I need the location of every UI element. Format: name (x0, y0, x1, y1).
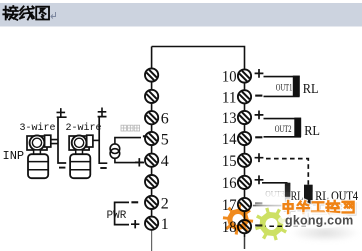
label 电流源 (121, 125, 126, 131)
resistor RL (OUT3) (285, 183, 290, 206)
wire OUT3 - (253, 205, 288, 207)
wire middle column bus (151, 47, 153, 230)
terminal (middle) 5 (145, 132, 158, 145)
transmitter 2-wire (69, 135, 93, 178)
resistor RL (OUT1) (293, 76, 300, 97)
terminal 18 (238, 220, 251, 233)
transmitter 3-wire (27, 135, 51, 178)
glow under gkong.com (278, 212, 354, 229)
terminal (middle) 6 (145, 111, 158, 124)
terminal 10 (238, 69, 251, 82)
wire OUT3 + (262, 182, 288, 184)
terminal 15 (238, 154, 251, 167)
terminal 17 (238, 198, 251, 211)
wire OUT4 - (dashed) (266, 205, 309, 227)
resistor RL (OUT4) (304, 185, 313, 205)
watermark text 中华工控网 (285, 203, 294, 215)
rail 2-wire (+ top, - bottom) (98, 108, 107, 117)
wire current source to terminal 4 (115, 158, 144, 162)
paragraph return mark (51, 12, 56, 19)
wire top bus (152, 47, 245, 71)
resistor RL (OUT4) redraw (304, 185, 313, 205)
wire OUT1 + (264, 76, 300, 78)
watermark gear green (255, 208, 288, 241)
wire right column bus (244, 70, 246, 237)
terminal (middle) 1 (145, 217, 158, 230)
resistor RL (OUT2) (294, 118, 301, 137)
terminal (middle) 3 (145, 175, 158, 188)
wire PWR bracket (115, 202, 129, 224)
watermark gear orange (223, 204, 253, 234)
wire OUT2 + (264, 118, 302, 120)
current source symbol (110, 144, 120, 154)
rail 3-wire (+ top, - bottom) (57, 108, 66, 117)
resistor RL (OUT3) redraw (285, 183, 290, 197)
title 接线图 (3, 6, 18, 20)
wire current source to terminal 5 (115, 138, 141, 144)
wire OUT2 - (264, 136, 302, 138)
terminal (middle) 7 (145, 90, 158, 103)
header bar (0, 3, 362, 27)
wire 3-wire leads (51, 140, 58, 144)
terminal (middle) 4 (145, 154, 158, 167)
terminal 13 (238, 111, 251, 124)
svg-text:gkong.com: gkong.com (285, 214, 353, 228)
terminal (middle) 2 (145, 196, 158, 209)
wire 2-wire lead (93, 139, 99, 141)
wire OUT4 + (dashed) (266, 159, 308, 185)
terminal 11 (238, 90, 251, 103)
terminal (middle) 8 (145, 68, 158, 81)
terminal 14 (238, 132, 251, 145)
terminal 16 (238, 176, 251, 189)
wire OUT1 - (264, 95, 300, 97)
